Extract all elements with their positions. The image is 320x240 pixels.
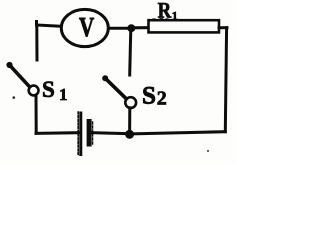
wire middle upper (node A down to switch S2) (130, 29, 131, 76)
wire voltmeter to node A (109, 27, 129, 30)
wire node A to resistor R1 (135, 26, 149, 29)
node A (top junction dot) (127, 24, 135, 32)
switch S1 pivot contact (29, 86, 39, 96)
battery cell: short thick plate (right) (87, 119, 92, 147)
speck near S1 (13, 96, 16, 99)
switch S2 pivot contact (125, 97, 136, 108)
wire left side upper (corner down to switch S1 contact) (35, 25, 38, 60)
wire top-left segment (corner to voltmeter) (37, 22, 62, 27)
voltmeter V (61, 9, 108, 46)
resistor R1 (149, 20, 220, 32)
scan ticks on resistor top edge (153, 18, 168, 20)
svg-text:1: 1 (59, 85, 68, 104)
switch S1 blade (6, 62, 30, 88)
label R1 (158, 0, 178, 23)
svg-text:1: 1 (172, 9, 178, 23)
switch S2 blade (102, 75, 127, 99)
wire middle lower (switch S2 to node B) (128, 108, 131, 134)
label S1 (42, 77, 68, 104)
svg-text:S: S (142, 82, 156, 109)
wire resistor R1 to top-right corner (219, 26, 227, 29)
svg-text:R: R (158, 0, 172, 23)
battery cell: long thin plate (left) (79, 112, 82, 157)
wire bottom middle segment (node B to battery) (92, 131, 127, 135)
svg-text:2: 2 (157, 88, 167, 110)
wire bottom right segment (corner to node B) (133, 132, 225, 134)
svg-text:S: S (42, 77, 55, 102)
wire left side lower (corner up to switch S1 pivot) (35, 95, 38, 133)
speck bottom right (207, 150, 209, 152)
wire right side (225, 28, 226, 132)
label S2 (142, 82, 167, 109)
wire bottom left segment (battery to left corner) (36, 131, 79, 135)
svg-text:V: V (79, 13, 95, 43)
node B (bottom junction dot) (125, 130, 134, 139)
